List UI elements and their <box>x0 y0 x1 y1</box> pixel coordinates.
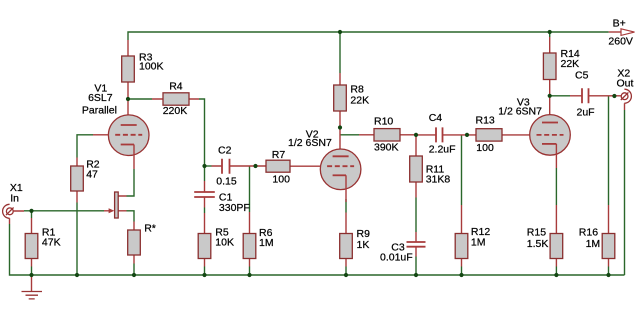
svg-text:C5: C5 <box>575 70 589 82</box>
label R3 100K <box>139 52 164 73</box>
junction node C2 C1 <box>202 164 206 168</box>
wire node R3/R4 to C2 <box>199 99 205 181</box>
wire bottom ground rail <box>10 224 625 275</box>
label R1 47K <box>42 227 61 249</box>
svg-text:R7: R7 <box>272 149 286 161</box>
svg-text:1.5K: 1.5K <box>527 238 549 250</box>
tube V3 half 6SN7 <box>530 115 571 168</box>
wire X2 ground side <box>624 110 626 275</box>
svg-text:Out: Out <box>617 77 634 89</box>
wire R9 bottom <box>345 267 347 276</box>
label V2 1/2 6SN7 <box>288 128 332 149</box>
wire R2 bottom to ground rail <box>76 203 78 276</box>
capacitor C5 <box>570 88 621 103</box>
svg-text:2uF: 2uF <box>577 106 595 118</box>
svg-text:1M: 1M <box>471 237 486 249</box>
resistor R5 <box>198 213 211 267</box>
svg-text:C4: C4 <box>429 112 443 124</box>
svg-text:Parallel: Parallel <box>82 105 117 117</box>
junction top rail R14 <box>548 30 552 34</box>
label V1 6SL7 Parallel <box>82 83 117 117</box>
label R14 22K <box>561 48 580 70</box>
label X1 In <box>10 182 23 204</box>
svg-text:47: 47 <box>86 169 98 181</box>
svg-text:C2: C2 <box>218 145 232 157</box>
svg-text:6SL7: 6SL7 <box>88 92 113 104</box>
label V3 1/2 6SN7 <box>498 96 542 117</box>
label C1 330PF <box>219 192 250 214</box>
wire node R3 R4 <box>128 98 152 100</box>
label R4 220K <box>163 81 188 118</box>
svg-text:R*: R* <box>144 223 156 235</box>
resistor R11 <box>410 135 423 198</box>
svg-text:100: 100 <box>476 142 494 154</box>
capacitor C2 <box>212 159 267 174</box>
junction node C4 R13 R12 <box>465 133 469 137</box>
resistor R8 <box>334 73 347 156</box>
wire R1 bottom <box>31 267 33 276</box>
label X2 Out <box>617 68 634 90</box>
tube V1 6SL7 <box>93 115 149 169</box>
label C5 2uF <box>575 70 595 119</box>
wire output node down to R16 <box>608 96 610 205</box>
svg-text:330PF: 330PF <box>219 202 250 214</box>
resistor R10 <box>359 129 416 141</box>
junction rail R star <box>132 273 136 277</box>
resistor R3 <box>122 40 135 125</box>
label R12 1M <box>471 226 490 249</box>
junction node R8 V2 plate <box>338 125 342 129</box>
label R2 47 <box>86 158 100 180</box>
wire V1 grid to R2 <box>77 135 93 158</box>
svg-text:220K: 220K <box>163 105 188 117</box>
label R11 31K8 <box>426 164 451 186</box>
junction node C5 X2 R16 <box>612 94 616 98</box>
resistor R13 <box>476 129 530 141</box>
connector X1 <box>3 204 24 224</box>
resistor R star <box>128 222 141 264</box>
wire JFET source to R star <box>127 211 135 222</box>
resistor R9 <box>340 213 353 267</box>
wire C2 left stub <box>205 165 212 167</box>
wire R6 down from C2/R7 node <box>249 166 251 212</box>
wire C1 to R5 <box>204 208 206 214</box>
power B+ arrow <box>609 29 635 36</box>
svg-text:In: In <box>10 192 19 204</box>
wire R12 bottom <box>461 267 463 276</box>
label R7 100 <box>272 149 290 185</box>
junction rail R2 <box>75 273 79 277</box>
junction input R1 <box>29 209 33 213</box>
label C4 2.2uF <box>429 112 456 155</box>
ground <box>22 275 43 299</box>
svg-text:R15: R15 <box>527 226 546 238</box>
label R5 10K <box>215 227 234 249</box>
label R10 390K <box>374 116 399 154</box>
capacitor C1 <box>194 181 215 208</box>
resistor R14 <box>543 37 556 123</box>
junction rail R1 ground <box>29 273 33 277</box>
svg-text:390K: 390K <box>374 141 399 153</box>
label C3 0.01uF <box>380 241 413 263</box>
resistor R12 <box>455 205 468 267</box>
junction rail R15 <box>554 273 558 277</box>
svg-text:22K: 22K <box>350 94 369 106</box>
wire B+ top rail <box>128 32 609 40</box>
svg-text:R16: R16 <box>579 226 598 238</box>
label R9 1K <box>357 228 371 251</box>
resistor R4 <box>152 93 199 105</box>
label R13 100 <box>476 115 495 155</box>
wire V2 cathode to R9 <box>345 199 347 213</box>
svg-text:R4: R4 <box>169 81 183 93</box>
wire R15 bottom <box>555 267 557 276</box>
label B+ 260V <box>608 17 633 47</box>
svg-text:47K: 47K <box>42 237 61 249</box>
wire V2 plate node to R10 <box>340 134 359 136</box>
svg-text:1K: 1K <box>357 239 370 251</box>
resistor R6 <box>243 212 256 267</box>
junction rail R12 <box>459 273 463 277</box>
label R15 1.5K <box>527 226 549 250</box>
svg-text:1M: 1M <box>586 238 601 250</box>
svg-text:10K: 10K <box>215 236 234 248</box>
junction node R10 R11 C4 <box>414 133 418 137</box>
wire R16 bottom <box>608 267 610 276</box>
junction node R14 V3 plate out <box>548 94 552 98</box>
svg-text:31K8: 31K8 <box>426 173 451 185</box>
svg-text:R10: R10 <box>374 116 393 128</box>
wire R5 bottom <box>204 267 206 276</box>
wire C3 bottom <box>415 257 417 276</box>
resistor R15 <box>550 205 563 267</box>
svg-text:1/2 6SN7: 1/2 6SN7 <box>288 137 332 149</box>
svg-text:1M: 1M <box>259 237 274 249</box>
svg-text:1/2 6SN7: 1/2 6SN7 <box>498 105 542 117</box>
transistor JFET current source <box>104 192 127 218</box>
junction rail R5 <box>202 273 206 277</box>
label R6 1M <box>259 227 274 249</box>
wire R14 top <box>549 32 551 37</box>
label C2 0.15 <box>216 145 237 188</box>
junction rail C3 <box>414 273 418 277</box>
wire R6 bottom <box>249 267 251 276</box>
junction rail R16 <box>606 273 610 277</box>
wire R8 top <box>339 32 341 73</box>
junction rail R6 <box>247 273 251 277</box>
svg-text:0.01uF: 0.01uF <box>380 251 413 263</box>
connector X2 <box>621 89 632 110</box>
junction node R3 R4 V1 plate <box>126 97 130 101</box>
label R16 1M <box>579 226 600 250</box>
junction rail R9 <box>344 273 348 277</box>
svg-text:100: 100 <box>272 173 290 185</box>
junction node C2 R7 R6 <box>253 164 257 168</box>
capacitor C4 <box>416 127 476 142</box>
capacitor C3 <box>407 232 426 257</box>
svg-text:22K: 22K <box>561 58 580 70</box>
wire output node to C5 <box>550 95 570 97</box>
label R8 22K <box>350 83 369 106</box>
svg-text:2.2uF: 2.2uF <box>429 143 456 155</box>
svg-text:B+: B+ <box>613 17 626 29</box>
resistor R2 <box>71 158 84 203</box>
wire input net X1 to gate <box>24 210 104 212</box>
resistor R16 <box>602 205 615 267</box>
svg-text:0.15: 0.15 <box>216 175 237 187</box>
wire R star bottom <box>133 264 135 276</box>
svg-text:260V: 260V <box>608 36 633 48</box>
svg-text:R13: R13 <box>476 115 495 127</box>
svg-text:100K: 100K <box>139 60 164 72</box>
wire R11 to C3 <box>415 198 417 233</box>
resistor R1 <box>25 218 38 267</box>
junction top rail R8 <box>338 30 342 34</box>
wire V3 cathode to R15 <box>555 168 557 205</box>
resistor R7 <box>266 160 320 172</box>
wire C4 node down to R12 <box>461 135 463 205</box>
wire JFET drain to V1 cathode <box>127 169 135 196</box>
tube V2 half 6SN7 <box>320 149 361 202</box>
wire R1 top <box>31 211 33 218</box>
